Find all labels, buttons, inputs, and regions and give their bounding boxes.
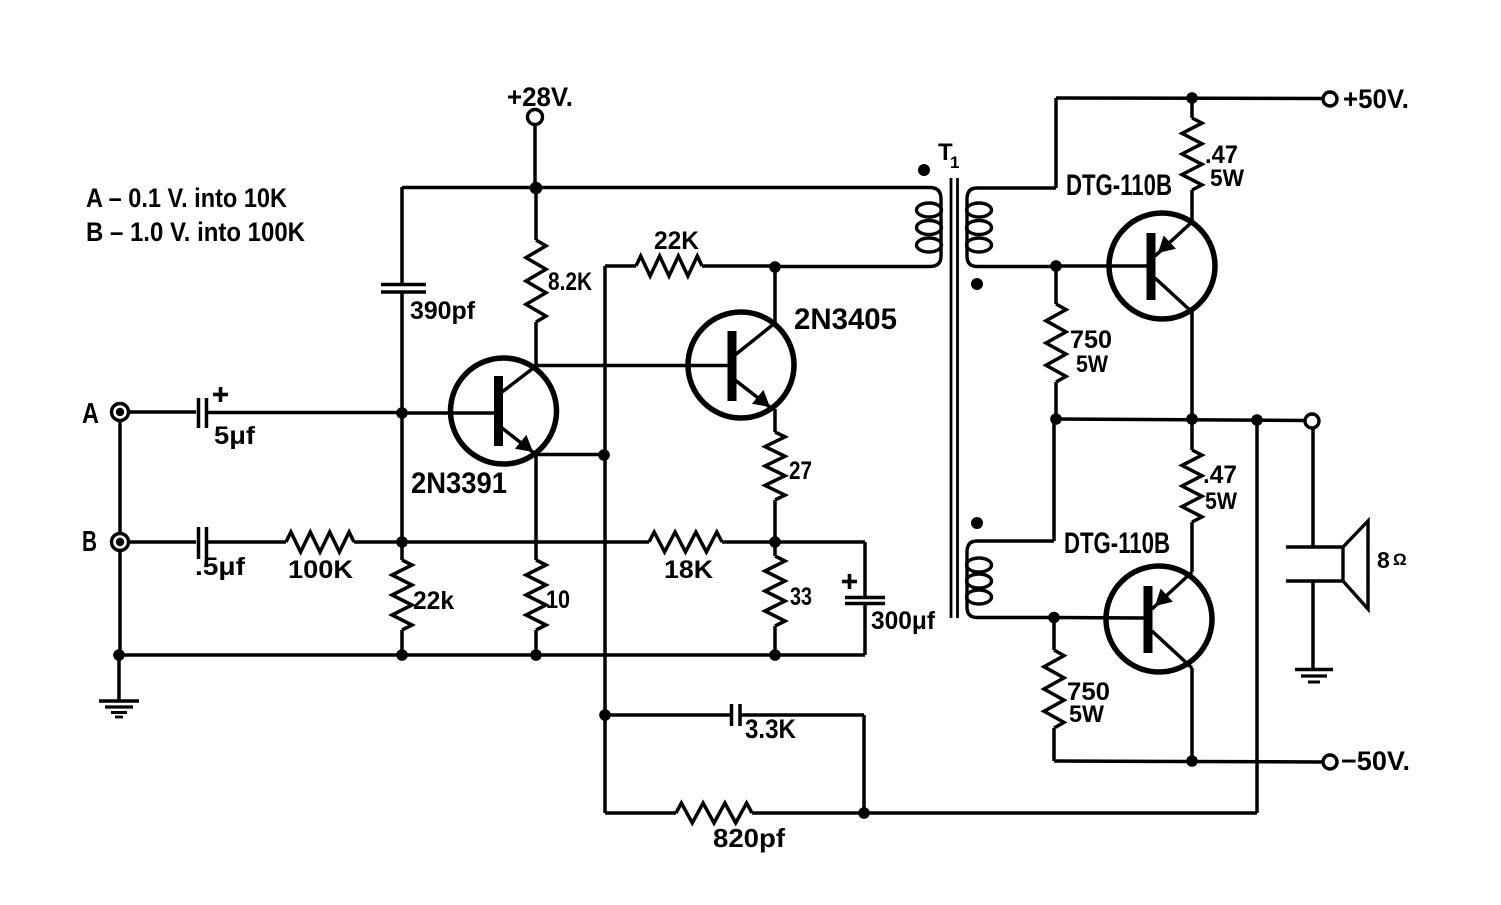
capacitor C1 5uf plates	[197, 398, 201, 428]
resistor R2 100K	[286, 532, 354, 552]
svg-text:.5μf: .5μf	[195, 553, 246, 581]
svg-text:5W: 5W	[1210, 165, 1244, 192]
transformer T1 phase dot primary	[918, 164, 930, 176]
wire feedback row1 drop	[862, 715, 866, 813]
node junction feedback join	[858, 807, 870, 819]
wire Q3 collector to output bus	[1190, 312, 1194, 419]
node junction gnd left	[113, 649, 125, 661]
resistor R10 820pf	[676, 803, 752, 823]
wire Q1 emitter to junction	[535, 453, 604, 457]
transistor Q2 emitter arrow	[752, 390, 770, 407]
svg-text:−50V.: −50V.	[1341, 746, 1410, 776]
transistor Q4 base bar	[1144, 586, 1153, 653]
wire ground bus	[119, 653, 865, 657]
wire Q4 collector to -50 rail	[1190, 668, 1194, 761]
transistor Q1 base bar	[494, 376, 503, 446]
wire secondary lower leads and spine	[967, 541, 1054, 618]
transistor Q3 collector	[1155, 278, 1192, 312]
node junction gnd 33	[769, 649, 781, 661]
terminal -50V	[1323, 755, 1337, 769]
svg-text:2N3405: 2N3405	[794, 303, 897, 336]
wire Q1 collector to Q2 base	[536, 364, 728, 368]
wire R11 to Q3 emitter	[1190, 190, 1194, 222]
wire secondary to Q4 base	[1054, 616, 1148, 620]
wire output bus	[1054, 419, 1306, 421]
svg-text:820pf: 820pf	[713, 823, 785, 853]
transistor Q2 base bar	[728, 331, 737, 401]
wire node A1 down to node B1	[400, 413, 404, 542]
resistor R12 750 5W upper	[1046, 304, 1066, 382]
speaker cone	[1343, 521, 1368, 609]
wire R13 to Q4 emitter	[1190, 522, 1194, 572]
wire node E2 to C300	[775, 540, 865, 544]
wire R9 to ground bus	[773, 626, 777, 655]
wire R12 to output bus	[1054, 382, 1058, 419]
wire feedback row2 to output	[752, 811, 1257, 815]
svg-text:1: 1	[950, 153, 959, 172]
transformer T1 primary winding	[917, 203, 942, 217]
resistor R3 8.2K	[526, 240, 546, 322]
node junction Q1 emitter	[598, 449, 610, 461]
resistor R12 750 5W upper lead	[1054, 266, 1058, 304]
svg-text:5W: 5W	[1076, 351, 1108, 378]
transistor Q3 base bar	[1147, 233, 1156, 300]
node junction Q2 collector	[769, 261, 781, 273]
resistor R3 8.2K lead	[534, 188, 538, 240]
wire node B1 to R18K	[402, 540, 649, 544]
wire A input to C1	[129, 410, 196, 414]
node junction -50 rail	[1186, 755, 1198, 767]
transistor Q4 emitter	[1152, 572, 1192, 609]
wire ground stub	[117, 655, 121, 701]
node junction +50 rail	[1186, 92, 1198, 104]
transistor Q4 collector	[1152, 631, 1192, 668]
wire feedback row1 left	[605, 713, 730, 717]
wire R100K to node B1	[354, 540, 402, 544]
node B input terminal	[112, 534, 129, 551]
transistor Q3 emitter arrow	[1158, 236, 1176, 254]
svg-text:Ω: Ω	[1393, 550, 1407, 569]
capacitor C2 .5uf plates	[197, 527, 201, 559]
svg-text:5W: 5W	[1069, 701, 1104, 728]
node junction output bus collector	[1186, 413, 1198, 425]
resistor R7 27	[765, 432, 785, 500]
wire rail corner down x402	[400, 187, 404, 285]
capacitor C4 polarity +	[842, 580, 857, 584]
transistor Q1 emitter arrow	[515, 435, 533, 452]
svg-text:DTG-110B: DTG-110B	[1066, 169, 1172, 202]
node junction B1	[396, 536, 408, 548]
wire C300 top lead	[863, 542, 867, 597]
transistor Q3 emitter	[1155, 222, 1192, 256]
node junction Q3 base	[1050, 260, 1062, 272]
svg-text:A – 0.1 V. into 10K: A – 0.1 V. into 10K	[86, 183, 287, 213]
wire top rail	[402, 186, 930, 190]
terminal output	[1305, 414, 1319, 428]
wire 28V to rail	[533, 124, 537, 190]
resistor R5 22k lead	[400, 542, 404, 560]
svg-text:300μf: 300μf	[871, 607, 936, 635]
wire feedback rise to output node	[1255, 421, 1259, 813]
svg-text:390pf: 390pf	[410, 297, 476, 325]
capacitor C4 300uf plates	[845, 596, 885, 600]
transistor Q1 2N3391 circle	[451, 358, 557, 464]
svg-text:22k: 22k	[413, 587, 454, 615]
svg-text:DTG-110B: DTG-110B	[1064, 527, 1170, 560]
transistor Q2 collector	[735, 323, 775, 355]
transistor Q2 emitter	[735, 380, 771, 408]
resistor R13 .47 5W lower lead	[1190, 419, 1194, 450]
transistor Q4 emitter arrow	[1155, 589, 1173, 607]
wire R14 to -50 rail	[1052, 728, 1056, 761]
wire secondary lower rise to output bus	[1052, 419, 1056, 541]
terminal +50V	[1323, 92, 1337, 106]
capacitor C5 3.3K plates	[730, 704, 734, 726]
transistor Q4 DTG-110B lower circle	[1106, 566, 1212, 672]
svg-text:+50V.: +50V.	[1343, 84, 1409, 114]
resistor R11 .47 5W upper lead	[1190, 98, 1194, 118]
svg-text:8.2K: 8.2K	[548, 268, 592, 296]
wire input ground drop A-B	[118, 420, 122, 534]
resistor R9 33 lead	[773, 542, 777, 556]
node junction output bus speaker	[1251, 414, 1263, 426]
wire secondary upper rise to +50 rail	[1054, 98, 1058, 188]
transformer T1 phase dot secondary lower	[971, 517, 983, 529]
svg-text:5μf: 5μf	[214, 422, 256, 450]
wire input ground drop B-bus	[118, 550, 122, 655]
svg-text:22K: 22K	[654, 227, 699, 255]
wire Q1 emitter down to R10	[534, 454, 538, 560]
wire secondary upper leads and spine	[967, 188, 1056, 267]
wire R8 to node E2	[722, 540, 775, 544]
wire R7 to node E2	[773, 500, 777, 542]
resistor R13 .47 5W lower	[1182, 450, 1202, 522]
wire 22K left lead	[605, 264, 636, 268]
wire secondary to Q3 base	[1056, 264, 1151, 268]
wire -50V rail	[1054, 761, 1322, 762]
wire speaker to ground	[1311, 581, 1315, 669]
wire B input to C2	[129, 540, 196, 544]
svg-text:3.3K: 3.3K	[745, 714, 796, 744]
resistor R14 750 5W lower lead	[1052, 618, 1056, 650]
wire C2 to R100K	[208, 540, 286, 544]
node junction E2	[769, 536, 781, 548]
wire 22K left drop	[603, 266, 607, 813]
wire node A1 to Q1 base	[402, 411, 495, 415]
node junction Q4 base	[1048, 612, 1060, 624]
speaker driver plates	[1286, 545, 1343, 549]
transistor Q1 collector	[502, 366, 536, 392]
transistor Q3 DTG-110B upper circle	[1109, 213, 1215, 319]
wire C4 to ground bus	[863, 603, 867, 655]
ground symbol speaker	[1295, 668, 1333, 671]
transformer T1 secondary upper winding	[967, 203, 992, 217]
capacitor C1 polarity +	[213, 393, 228, 397]
resistor R9 33	[765, 556, 785, 626]
transformer T1 core	[950, 178, 953, 618]
node junction 28V rail	[530, 182, 543, 195]
svg-text:B – 1.0 V. into 100K: B – 1.0 V. into 100K	[86, 217, 305, 247]
svg-text:27: 27	[789, 457, 812, 485]
resistor R11 .47 5W upper	[1182, 118, 1202, 190]
wire R6 to Q2 collector node	[702, 264, 775, 268]
wire R3 to Q1 collector node	[534, 322, 538, 366]
node A input terminal	[112, 404, 129, 421]
resistor R4 10	[526, 560, 546, 630]
wire Q2 emitter to R27	[773, 409, 777, 432]
svg-text:.47: .47	[1203, 461, 1237, 489]
wire +50V rail	[1056, 96, 1322, 100]
transformer T1 phase dot secondary upper	[971, 278, 983, 290]
ground symbol	[99, 699, 139, 702]
transistor Q2 2N3405 circle	[688, 312, 794, 418]
resistor R5 22k	[392, 560, 412, 630]
svg-text:18K: 18K	[664, 556, 713, 584]
node junction feedback top	[599, 709, 611, 721]
wire feedback row2 left	[605, 811, 676, 815]
wire C3 to node A1	[400, 292, 404, 414]
svg-text:8: 8	[1377, 547, 1390, 573]
svg-text:A: A	[82, 398, 99, 430]
node junction gnd 10	[530, 649, 542, 661]
svg-text:5W: 5W	[1205, 488, 1237, 515]
wire C1 to node A1	[208, 411, 402, 415]
wire R5 to ground bus	[400, 630, 404, 655]
transformer T1 secondary lower winding	[967, 558, 992, 572]
svg-text:33: 33	[790, 583, 812, 611]
wire R4 to ground bus	[534, 630, 538, 655]
node junction A1	[396, 407, 408, 419]
transistor Q1 emitter	[502, 428, 534, 453]
wire output terminal to speaker	[1311, 428, 1315, 547]
svg-text:2N3391: 2N3391	[411, 467, 507, 500]
svg-text:+28V.: +28V.	[507, 82, 573, 112]
resistor R14 750 5W lower	[1044, 650, 1064, 728]
node junction gnd 22k	[396, 649, 408, 661]
node junction output bus left	[1050, 413, 1062, 425]
resistor R6 22K	[636, 256, 702, 276]
svg-text:100K: 100K	[288, 556, 353, 584]
wire feedback row1 right	[741, 713, 864, 717]
svg-text:750: 750	[1070, 326, 1112, 354]
terminal +28V	[528, 110, 543, 125]
svg-text:B: B	[82, 526, 97, 558]
wire primary leads and spine	[775, 188, 941, 267]
svg-text:10: 10	[546, 586, 570, 614]
resistor R8 18K	[649, 532, 722, 552]
capacitor C3 390pf plates	[381, 283, 426, 287]
